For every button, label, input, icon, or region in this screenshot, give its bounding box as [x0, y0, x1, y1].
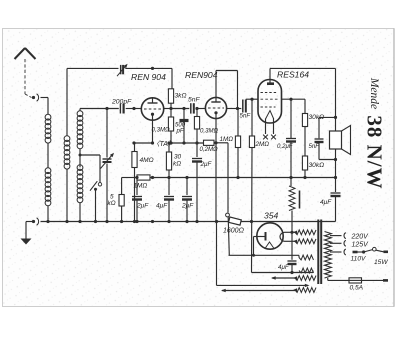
- svg-text:5nF: 5nF: [188, 97, 201, 104]
- svg-text:REN904: REN904: [185, 70, 218, 80]
- svg-text:5nF: 5nF: [240, 113, 252, 120]
- svg-text:2μF: 2μF: [181, 203, 194, 210]
- svg-text:354: 354: [264, 211, 279, 221]
- svg-text:1MΩ: 1MΩ: [134, 183, 148, 190]
- svg-text:110V: 110V: [351, 256, 367, 263]
- svg-text:4μF: 4μF: [278, 264, 290, 271]
- svg-text:REN 904: REN 904: [131, 72, 166, 82]
- svg-text:0,2MΩ: 0,2MΩ: [200, 146, 219, 153]
- svg-text:0,3MΩ: 0,3MΩ: [200, 128, 219, 135]
- svg-text:kΩ: kΩ: [173, 161, 181, 168]
- svg-text:30kΩ: 30kΩ: [309, 162, 325, 169]
- svg-text:38 N/W: 38 N/W: [363, 115, 387, 189]
- svg-text:2μF: 2μF: [136, 203, 149, 210]
- svg-text:Mende: Mende: [368, 77, 380, 109]
- svg-text:1MΩ: 1MΩ: [220, 136, 234, 143]
- svg-text:220V: 220V: [351, 233, 370, 240]
- svg-text:3kΩ: 3kΩ: [175, 93, 187, 100]
- svg-text:4MΩ: 4MΩ: [140, 157, 154, 164]
- svg-text:125V: 125V: [352, 241, 370, 248]
- svg-text:4μF: 4μF: [320, 199, 332, 206]
- svg-text:0,3MΩ: 0,3MΩ: [152, 127, 171, 134]
- svg-text:200pF: 200pF: [111, 99, 132, 106]
- svg-text:15W: 15W: [374, 259, 388, 266]
- svg-text:0,5A: 0,5A: [350, 285, 364, 292]
- svg-text:30: 30: [174, 154, 182, 161]
- svg-text:kΩ: kΩ: [108, 200, 116, 207]
- svg-text:RES164: RES164: [277, 70, 309, 80]
- svg-text:1600Ω: 1600Ω: [223, 228, 245, 235]
- svg-text:4μF: 4μF: [156, 203, 168, 210]
- svg-text:2μF: 2μF: [200, 161, 213, 168]
- svg-text:pF: pF: [176, 128, 185, 135]
- svg-text:2MΩ: 2MΩ: [255, 141, 270, 148]
